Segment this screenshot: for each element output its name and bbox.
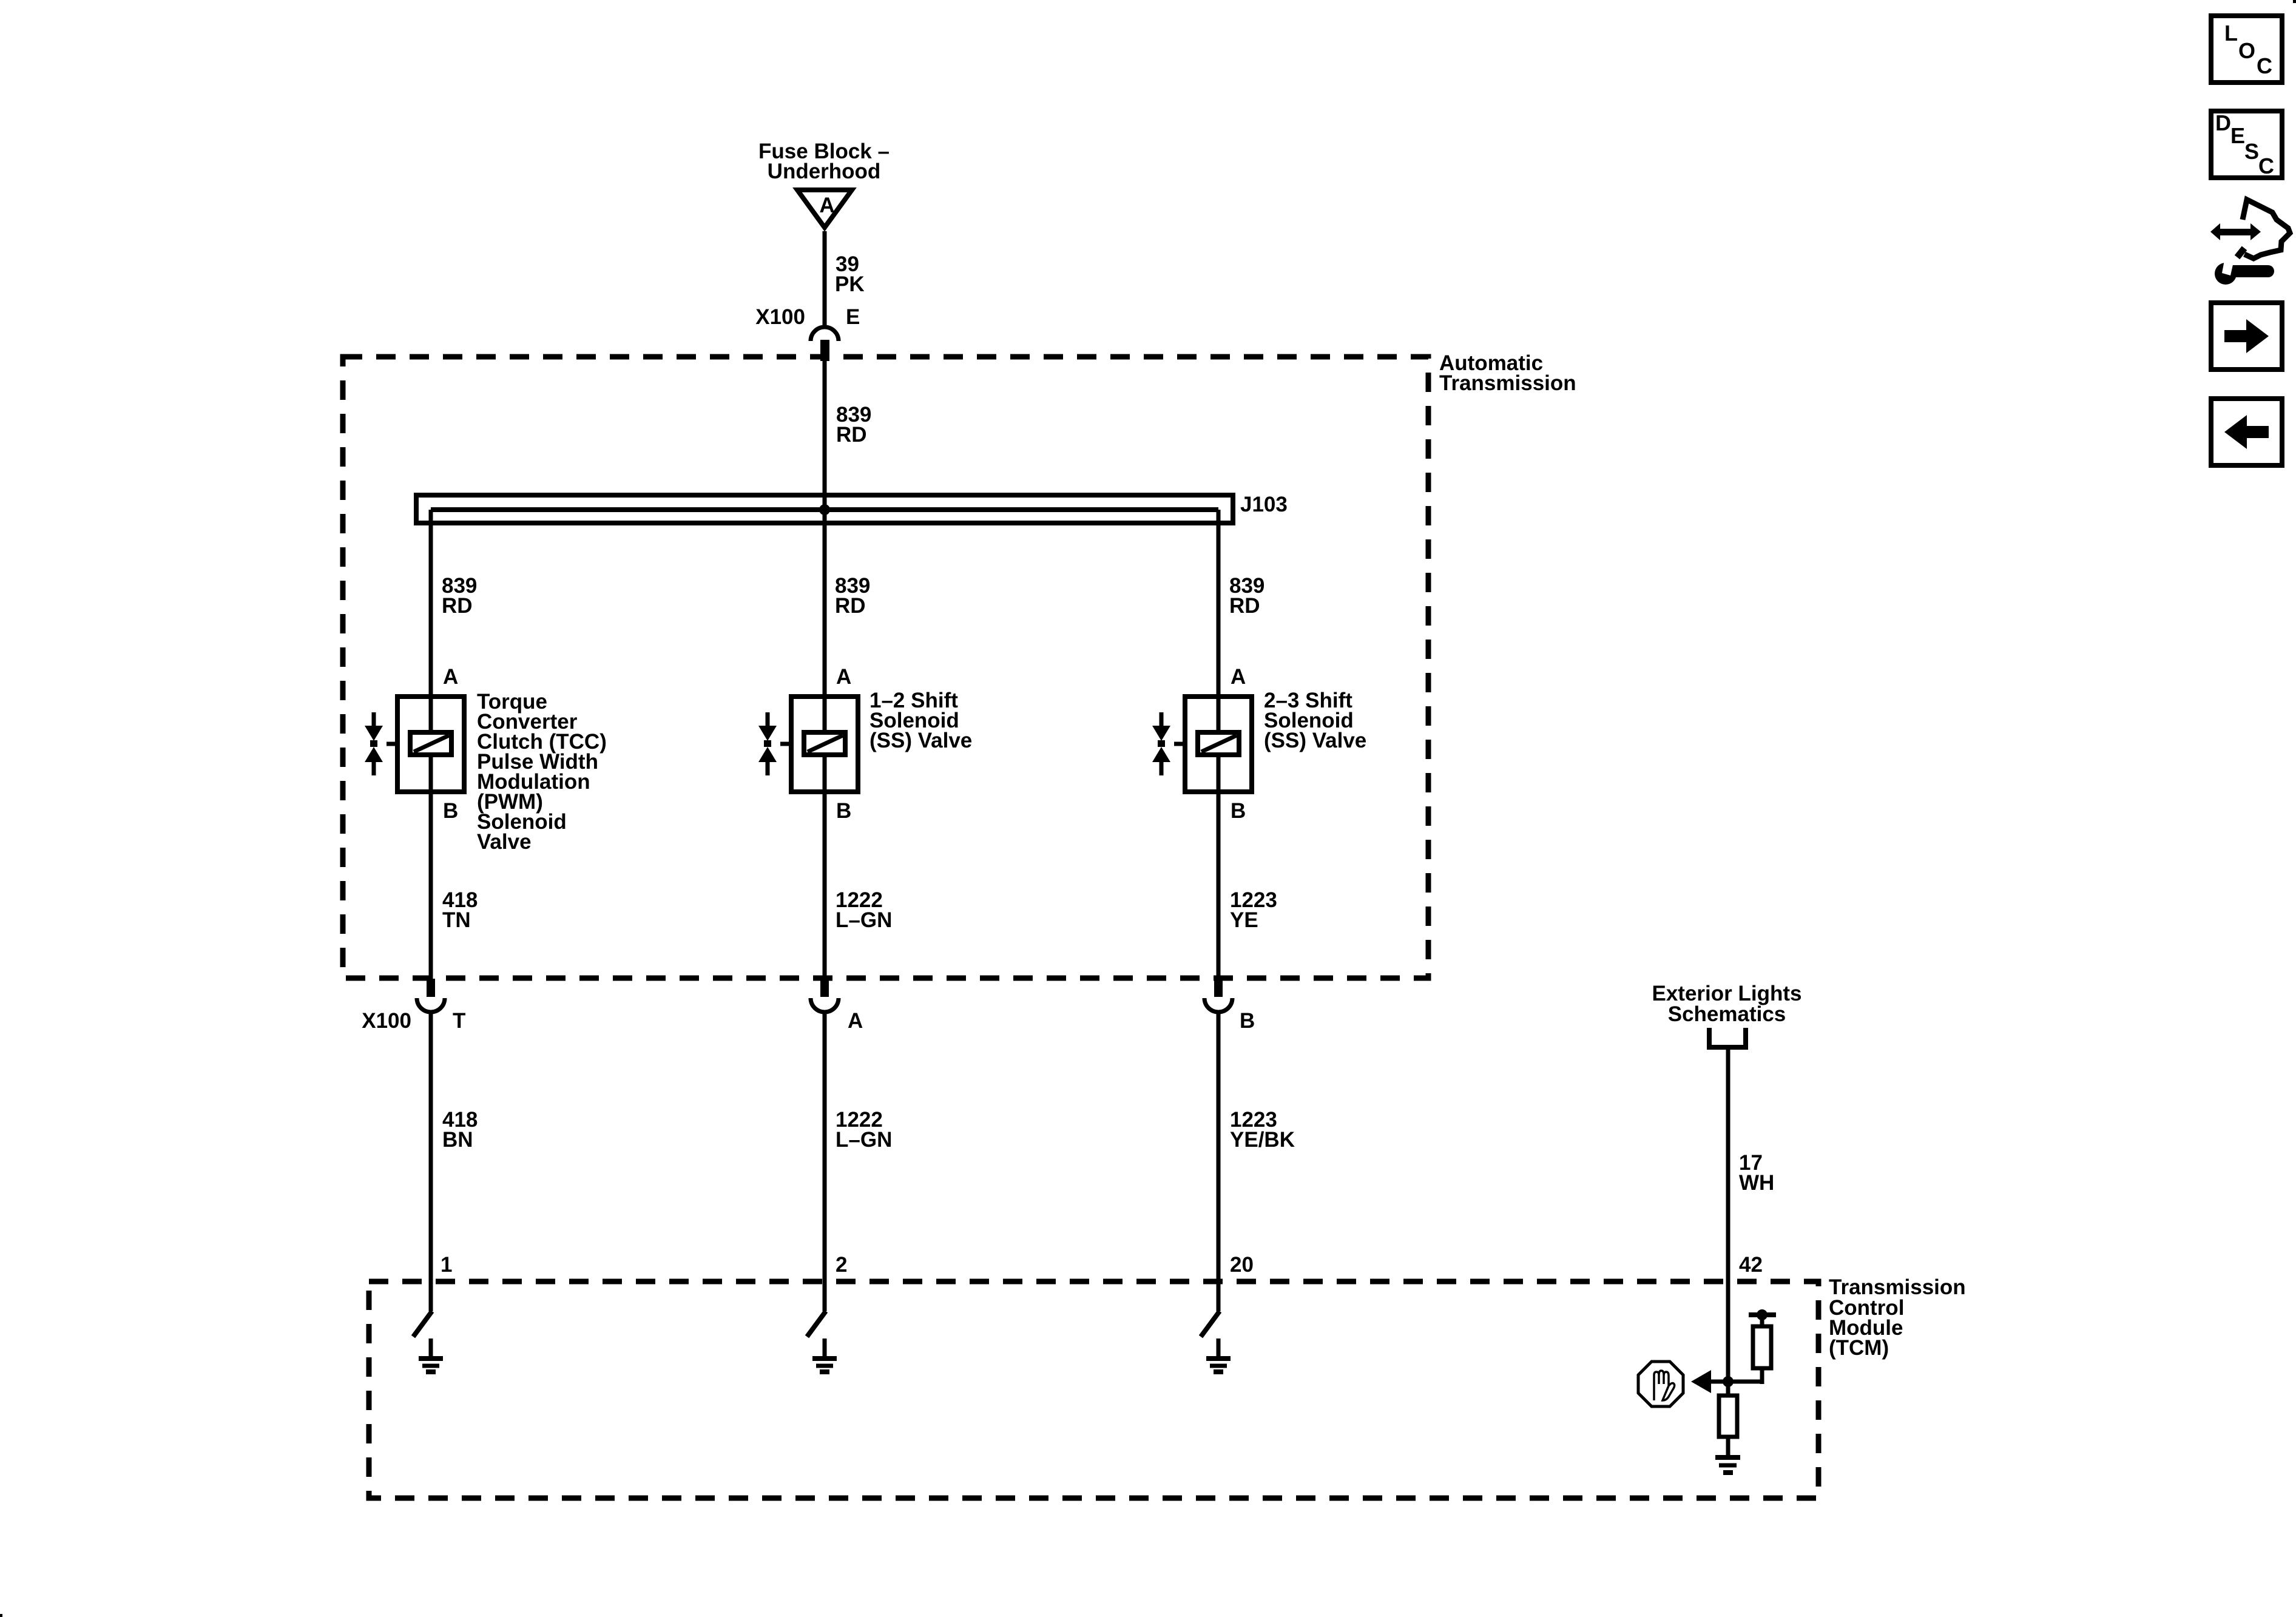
svg-text:1: 1 — [441, 1253, 452, 1277]
wire label 17 WH — [1739, 1151, 1774, 1195]
hand icon octagon (monitor indicator) — [1638, 1362, 1683, 1406]
svg-text:J103: J103 — [1240, 493, 1288, 516]
svg-text:Transmission: Transmission — [1439, 371, 1576, 395]
connector X100 terminal E (arc and pin) — [811, 327, 839, 361]
solenoid valve 1: Torque Converter Clutch (TCC) PWM solenoid — [387, 697, 464, 792]
wire label 418 TN — [442, 888, 478, 932]
wire label 1223 YE/BK — [1230, 1108, 1295, 1152]
svg-text:BN: BN — [442, 1128, 473, 1152]
svg-text:TN: TN — [442, 908, 471, 932]
ground G1 (TCM internal) — [419, 1338, 443, 1372]
wire label 839 RD (feed) — [836, 403, 871, 447]
ground G2 (TCM internal) — [812, 1338, 837, 1372]
wire label 839 RD branch 2 — [835, 574, 870, 618]
svg-text:D: D — [2215, 110, 2231, 135]
wire 1222 L-GN (solenoid 2 to X100) — [823, 792, 827, 979]
svg-text:WH: WH — [1739, 1171, 1774, 1195]
svg-text:Schematics: Schematics — [1668, 1002, 1786, 1026]
sidebar previous-page button — [2211, 399, 2282, 465]
svg-text:C: C — [2257, 53, 2272, 78]
svg-text:L–GN: L–GN — [836, 908, 892, 932]
wire label 39 PK — [835, 252, 865, 296]
wire 39 PK from fuse block to X100 — [823, 231, 827, 328]
label Torque Converter Clutch (TCC) PWM Solenoid Valve — [477, 690, 607, 854]
svg-text:(TCM): (TCM) — [1829, 1336, 1889, 1360]
valve actuator arrows solenoid 2 — [758, 712, 777, 775]
svg-text:PK: PK — [835, 272, 865, 296]
svg-text:B: B — [443, 799, 458, 823]
sidebar LOC button — [2211, 16, 2282, 83]
svg-text:Valve: Valve — [477, 830, 532, 854]
valve actuator arrows solenoid 3 — [1152, 712, 1170, 775]
label 1-2 Shift Solenoid (SS) Valve — [869, 689, 972, 752]
svg-text:A: A — [848, 1009, 863, 1033]
off-page connector triangle A (Fuse Block - Underhood) — [797, 190, 852, 228]
fuse block label — [758, 140, 890, 183]
svg-text:S: S — [2244, 139, 2259, 164]
resistor R2 (pull-down in TCM) — [1719, 1382, 1737, 1456]
Transmission Control Module label — [1829, 1275, 1966, 1360]
wire label 418 BN — [442, 1108, 478, 1152]
solenoid valve 3: 2-3 Shift Solenoid (SS) Valve — [1174, 697, 1252, 792]
connector X100 terminal T (pin and arc) — [417, 979, 445, 1012]
off-page bracket to Exterior Lights Schematics — [1709, 1028, 1746, 1047]
node 42 internal junction — [1723, 1376, 1734, 1387]
Automatic Transmission label — [1439, 351, 1576, 395]
wire label 1223 YE — [1230, 888, 1277, 932]
splice J103 bus — [416, 495, 1233, 523]
corner mark bottom-left — [0, 1614, 2, 1617]
svg-text:C: C — [2258, 154, 2274, 178]
label 2-3 Shift Solenoid (SS) Valve — [1264, 689, 1366, 752]
connector X100 terminal A (pin and arc) — [811, 979, 839, 1012]
svg-text:T: T — [453, 1009, 465, 1033]
wire label 839 RD branch 1 — [442, 574, 477, 618]
svg-text:X100: X100 — [755, 305, 805, 329]
ground G4 (TCM internal) — [1715, 1457, 1740, 1473]
svg-text:(SS) Valve: (SS) Valve — [869, 729, 972, 752]
wire label 839 RD branch 3 — [1229, 574, 1264, 618]
wire 839 RD branch 2 (J103 to 1-2 shift solenoid) — [823, 510, 827, 697]
wire 1222 L-GN (X100 to TCM pin 2) — [823, 1012, 827, 1311]
svg-text:A: A — [819, 194, 834, 217]
svg-text:2: 2 — [836, 1253, 847, 1277]
svg-text:X100: X100 — [362, 1009, 411, 1033]
wire label 1222 L-GN lower — [836, 1108, 892, 1152]
svg-text:RD: RD — [442, 594, 473, 618]
svg-text:E: E — [846, 305, 860, 329]
Transmission Control Module dashed box — [369, 1281, 1818, 1498]
svg-text:A: A — [443, 665, 458, 689]
junction at J103 — [819, 504, 830, 515]
arrow to monitoring logic — [1691, 1370, 1711, 1393]
svg-text:B: B — [1231, 799, 1246, 823]
svg-text:RD: RD — [1229, 594, 1260, 618]
ground G3 (TCM internal) — [1206, 1338, 1231, 1372]
svg-text:YE/BK: YE/BK — [1230, 1128, 1295, 1152]
wire 1223 YE/BK (X100 to TCM pin 20) — [1217, 1012, 1221, 1311]
wire 839 RD branch 1 (J103 to TCC solenoid) — [429, 510, 433, 697]
svg-text:L–GN: L–GN — [836, 1128, 892, 1152]
wire 839 RD from X100 to splice J103 — [823, 361, 827, 510]
wire 418 TN (solenoid 1 to X100) — [429, 792, 433, 979]
internal wire to comparator arrow — [1710, 1380, 1761, 1384]
svg-text:(SS) Valve: (SS) Valve — [1264, 729, 1366, 752]
driver switch TCM pin 1 — [413, 1311, 432, 1337]
svg-text:YE: YE — [1230, 908, 1258, 932]
wire label 1222 L-GN — [836, 888, 892, 932]
valve actuator arrows solenoid 1 — [365, 712, 383, 775]
wire 1223 YE (solenoid 3 to X100) — [1217, 792, 1221, 979]
resistor R1 (pull-up in TCM) — [1728, 1309, 1776, 1384]
svg-text:A: A — [836, 665, 851, 689]
Automatic Transmission dashed box — [343, 357, 1428, 978]
wire 418 BN (X100 to TCM pin 1) — [429, 1012, 433, 1311]
corner mark top-right — [2293, 0, 2296, 3]
Exterior Lights Schematics label — [1652, 982, 1802, 1026]
svg-text:O: O — [2238, 38, 2255, 63]
svg-text:A: A — [1231, 665, 1246, 689]
svg-text:L: L — [2224, 21, 2238, 46]
sidebar DESC button — [2211, 110, 2282, 178]
connector X100 terminal B (pin and arc) — [1204, 979, 1232, 1012]
sidebar diagnostic tool icon — [2210, 200, 2290, 285]
solenoid valve 2: 1-2 Shift Solenoid (SS) Valve — [780, 697, 858, 792]
sidebar next-page button — [2211, 303, 2282, 370]
svg-text:Underhood: Underhood — [768, 160, 881, 183]
wire 839 RD branch 3 (J103 to 2-3 shift solenoid) — [1217, 510, 1221, 697]
wire 17 WH (exterior lights to TCM pin 42) — [1726, 1050, 1730, 1382]
svg-text:RD: RD — [835, 594, 866, 618]
driver switch TCM pin 20 — [1201, 1311, 1220, 1337]
driver switch TCM pin 2 — [807, 1311, 826, 1337]
svg-text:B: B — [836, 799, 851, 823]
svg-text:RD: RD — [836, 423, 867, 447]
svg-text:20: 20 — [1230, 1253, 1254, 1277]
svg-text:E: E — [2230, 123, 2245, 148]
svg-text:42: 42 — [1739, 1253, 1763, 1277]
svg-text:B: B — [1240, 1009, 1255, 1033]
